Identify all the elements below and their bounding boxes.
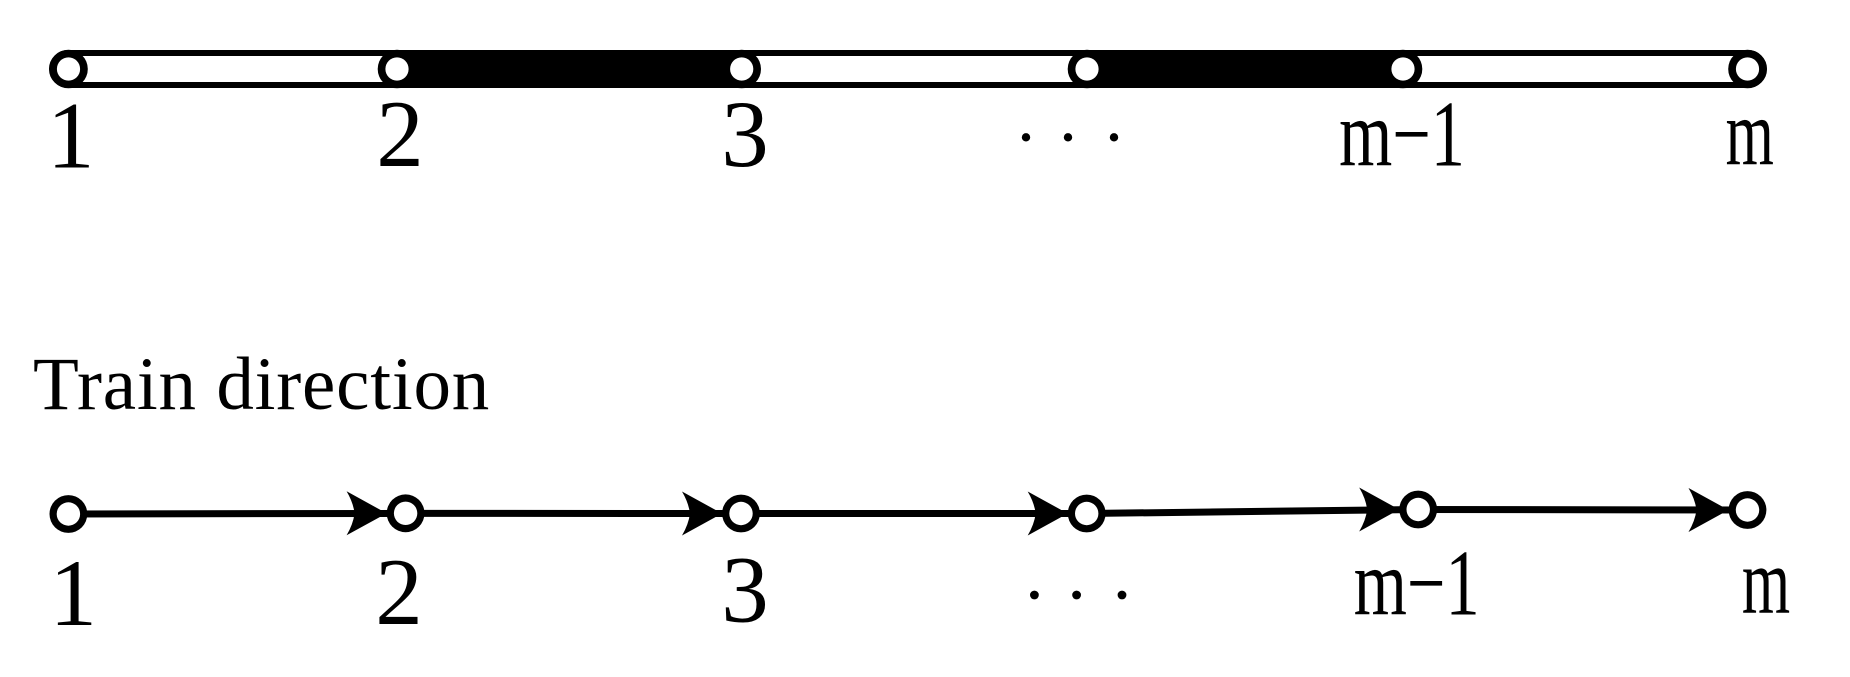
black segment station 2 to 3 xyxy=(397,50,742,88)
station 2 ring xyxy=(378,50,417,89)
station m node (bottom) xyxy=(1729,491,1767,529)
svg-text:m−1: m−1 xyxy=(1339,82,1465,186)
arrowhead into station 2 xyxy=(347,491,387,535)
svg-text:2: 2 xyxy=(375,539,423,645)
black segment station 4 to m-1 xyxy=(1087,50,1403,88)
station 2 node (bottom) xyxy=(387,494,425,532)
station 1 ring xyxy=(49,50,88,89)
svg-text:m−1: m−1 xyxy=(1354,531,1480,635)
ellipsis dots (top) xyxy=(1022,133,1118,141)
track bar capsule outline xyxy=(52,53,1764,85)
station 1 node (bottom) xyxy=(50,495,88,533)
arrowhead into station m xyxy=(1689,488,1729,532)
arrowhead into station m-1 xyxy=(1359,488,1399,532)
station 4 ring xyxy=(1068,50,1107,89)
direction line wire xyxy=(68,510,1747,515)
ellipsis dots (bottom) xyxy=(1030,591,1126,600)
svg-text:2: 2 xyxy=(376,81,424,187)
svg-text:Train direction: Train direction xyxy=(33,343,490,426)
arrowhead into station 3 xyxy=(682,492,722,536)
station m-1 ring xyxy=(1384,50,1423,89)
station m-1 node (bottom) xyxy=(1399,491,1437,529)
arrowhead into station 4 xyxy=(1028,492,1068,536)
svg-text:1: 1 xyxy=(49,540,97,646)
station 3 node (bottom) xyxy=(722,495,760,533)
svg-text:1: 1 xyxy=(47,83,95,189)
station m ring xyxy=(1728,50,1767,89)
svg-text:3: 3 xyxy=(721,537,769,643)
svg-text:3: 3 xyxy=(721,81,769,187)
station 3 ring xyxy=(722,50,761,89)
station 4 node (bottom) xyxy=(1068,495,1106,533)
svg-text:m: m xyxy=(1742,530,1790,634)
svg-text:m: m xyxy=(1726,82,1774,186)
